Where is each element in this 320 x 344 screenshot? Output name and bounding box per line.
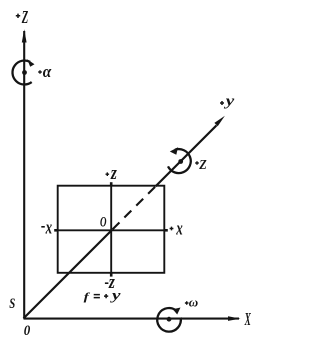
svg-text:α: α xyxy=(43,62,52,81)
label +alpha: plus mark xyxy=(38,70,42,74)
label f = + y: plus mark xyxy=(104,294,108,298)
rotation arc y arrowhead xyxy=(170,147,178,155)
label -z (bottom of rectangle): minus mark xyxy=(105,282,109,284)
svg-text:O: O xyxy=(100,215,107,231)
svg-text:y: y xyxy=(223,93,234,109)
tick below rectangle xyxy=(110,273,113,277)
svg-text:0: 0 xyxy=(24,323,31,339)
y axis diagonal: solid lower segment from origin to rectangle centre xyxy=(24,230,112,318)
label -x (left of rectangle): minus mark xyxy=(41,226,45,228)
rectangle horizontal midline xyxy=(58,229,165,231)
X axis horizontal line xyxy=(24,318,240,320)
svg-text:Z: Z xyxy=(21,7,28,27)
rectangle vertical midline xyxy=(110,186,112,273)
rotation arc omega about X axis xyxy=(157,308,181,332)
svg-text:Z: Z xyxy=(198,158,207,173)
X axis arrowhead xyxy=(228,316,241,321)
tick left of rectangle xyxy=(54,229,58,232)
svg-text:X: X xyxy=(244,309,251,329)
rotation arc alpha about Z axis xyxy=(12,61,31,85)
tick above rectangle xyxy=(110,182,113,186)
label +z (top of rectangle): plus mark xyxy=(106,172,110,176)
dot on y axis (rotation center) xyxy=(178,159,183,164)
label +Z (mid, rotation about y): plus mark xyxy=(195,161,199,165)
rotation arc alpha arrowhead xyxy=(27,59,34,67)
label +x (right of rectangle): plus mark xyxy=(170,227,174,231)
rotation arc about y axis xyxy=(168,149,191,173)
svg-text:z: z xyxy=(110,163,117,184)
y axis diagonal: dashed segment inside rectangle xyxy=(113,186,156,229)
dot on X axis (omega rotation center) xyxy=(167,317,172,322)
label +y (axis end): plus mark xyxy=(220,101,224,105)
svg-text:x: x xyxy=(45,217,53,238)
label +Z (top): plus mark xyxy=(16,14,20,18)
Z axis arrowhead xyxy=(22,29,27,42)
tick right of rectangle xyxy=(164,229,168,232)
dot on Z axis (alpha rotation center) xyxy=(22,70,27,75)
label f = + y: equals sign xyxy=(94,295,100,298)
svg-text:S: S xyxy=(9,296,15,312)
y axis diagonal: solid upper segment to arrowhead xyxy=(156,125,217,186)
Z axis vertical line xyxy=(23,31,25,319)
svg-text:x: x xyxy=(176,219,184,240)
rotation arc omega arrowhead xyxy=(173,308,181,315)
rectangle frame (2x2 grid) xyxy=(58,186,165,273)
svg-text:y: y xyxy=(109,288,121,303)
svg-text:ω: ω xyxy=(189,295,198,310)
svg-text:f: f xyxy=(84,292,91,303)
y axis arrowhead xyxy=(214,116,225,126)
label +omega: plus mark xyxy=(185,301,189,305)
